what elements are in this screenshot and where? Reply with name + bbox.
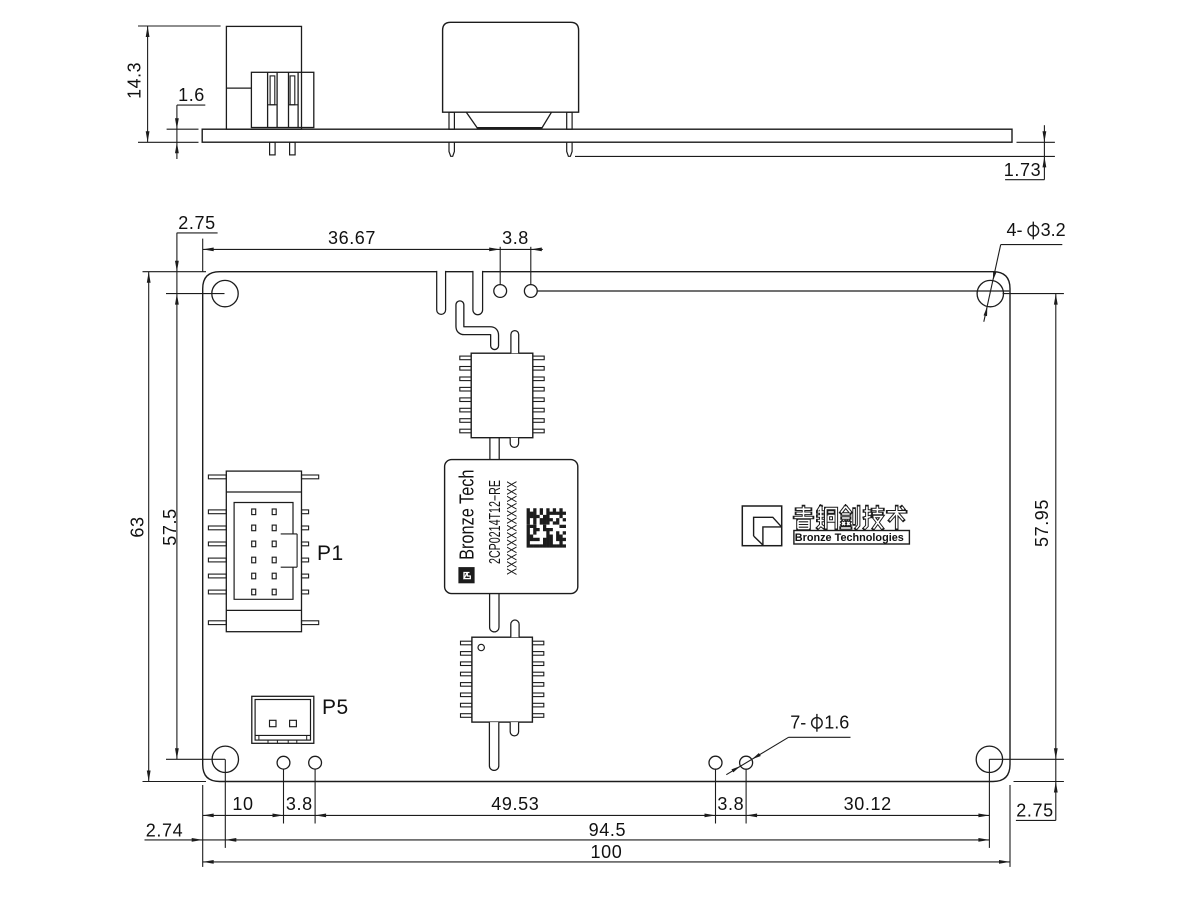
svg-text:3.8: 3.8 bbox=[502, 228, 529, 248]
svg-text:1.6: 1.6 bbox=[824, 713, 849, 733]
svg-text:30.12: 30.12 bbox=[844, 794, 892, 814]
svg-text:Bronze Technologies: Bronze Technologies bbox=[795, 532, 904, 544]
svg-text:7-: 7- bbox=[790, 713, 806, 733]
svg-text:57.95: 57.95 bbox=[1032, 499, 1052, 547]
svg-text:3.8: 3.8 bbox=[286, 794, 313, 814]
svg-text:100: 100 bbox=[590, 842, 622, 862]
svg-text:P5: P5 bbox=[322, 696, 349, 719]
svg-text:Bronze Tech: Bronze Tech bbox=[457, 470, 479, 560]
svg-text:1.73: 1.73 bbox=[1004, 160, 1041, 180]
svg-text:3.8: 3.8 bbox=[717, 794, 744, 814]
svg-text:2CP0214T12−RE: 2CP0214T12−RE bbox=[487, 480, 504, 564]
svg-text:94.5: 94.5 bbox=[589, 820, 626, 840]
svg-text:4-: 4- bbox=[1007, 220, 1023, 240]
svg-text:XXXXXXXXXXXXX: XXXXXXXXXXXXX bbox=[505, 481, 520, 576]
svg-text:1.6: 1.6 bbox=[178, 85, 205, 105]
svg-text:57.5: 57.5 bbox=[160, 508, 180, 545]
svg-text:10: 10 bbox=[232, 794, 253, 814]
svg-text:14.3: 14.3 bbox=[125, 62, 145, 99]
svg-text:49.53: 49.53 bbox=[491, 794, 539, 814]
svg-text:P1: P1 bbox=[317, 542, 344, 565]
svg-text:36.67: 36.67 bbox=[328, 228, 376, 248]
svg-text:2.74: 2.74 bbox=[146, 820, 183, 840]
svg-text:3.2: 3.2 bbox=[1041, 220, 1066, 240]
svg-text:2.75: 2.75 bbox=[178, 213, 215, 233]
svg-text:63: 63 bbox=[128, 516, 148, 537]
svg-text:2.75: 2.75 bbox=[1016, 800, 1053, 820]
